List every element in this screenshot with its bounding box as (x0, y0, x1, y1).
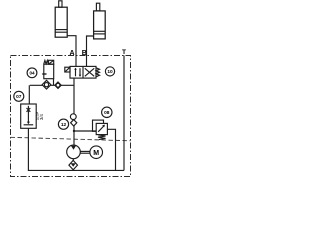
svg-text:12: 12 (61, 122, 67, 128)
svg-text:A: A (69, 50, 74, 57)
svg-text:T: T (122, 49, 126, 56)
svg-text:04: 04 (29, 71, 35, 76)
svg-text:08: 08 (104, 110, 110, 116)
svg-text:B: B (82, 50, 87, 57)
svg-text:M: M (93, 150, 99, 157)
svg-text:07: 07 (16, 94, 22, 100)
svg-text:10: 10 (107, 69, 113, 75)
svg-text:3/4: 3/4 (39, 114, 44, 120)
